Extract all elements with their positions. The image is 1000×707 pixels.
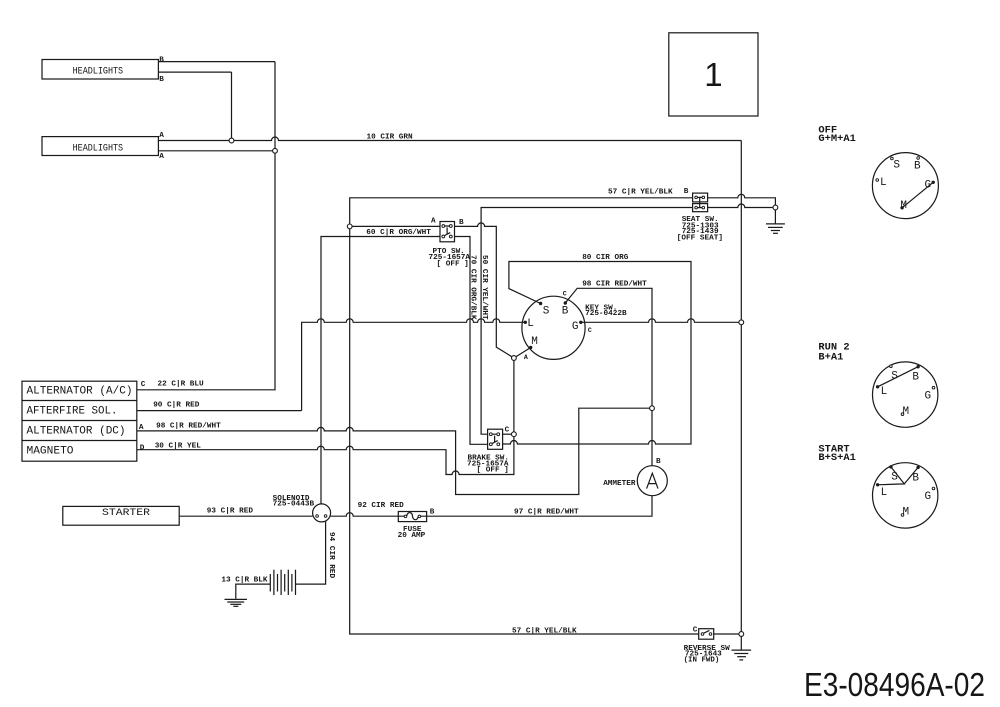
svg-text:90 C|R RED: 90 C|R RED — [153, 402, 200, 410]
svg-text:ALTERNATOR (DC): ALTERNATOR (DC) — [27, 426, 126, 438]
svg-text:G: G — [925, 491, 932, 503]
svg-text:HEADLIGHTS: HEADLIGHTS — [73, 66, 124, 77]
svg-text:L: L — [881, 487, 888, 499]
wire 98 CIR RED/WHT from key B up over and down to ammeter top — [565, 288, 652, 465]
svg-text:C: C — [588, 327, 592, 334]
svg-text:M: M — [900, 200, 907, 212]
wire 60 CIR ORG/WHT lower branch to solenoid top — [321, 237, 440, 505]
svg-text:725-0422B: 725-0422B — [585, 310, 627, 318]
svg-text:L: L — [527, 318, 534, 330]
svg-text:22 C|R BLU: 22 C|R BLU — [158, 381, 205, 389]
svg-text:B: B — [912, 372, 919, 384]
svg-text:C: C — [693, 627, 698, 635]
wire vertical from headlight1 B to node at 10 CIR GRN — [231, 72, 233, 140]
svg-text:A: A — [524, 354, 528, 361]
svg-text:M: M — [531, 336, 538, 348]
svg-text:G: G — [572, 321, 579, 333]
svg-text:B: B — [684, 188, 689, 196]
svg-text:AMMETER: AMMETER — [603, 480, 636, 488]
svg-text:B+A1: B+A1 — [818, 351, 843, 363]
wire 22 CIR BLU net: vertical x=275 down to alternator A/C row — [137, 62, 275, 390]
svg-text:M: M — [903, 406, 910, 418]
seat switch — [693, 193, 708, 212]
key position diagram START — [873, 463, 938, 528]
wire key row right: key G to right vertical junction with hops — [581, 319, 742, 322]
PTO switch — [440, 222, 455, 242]
svg-text:(IN FWD): (IN FWD) — [684, 656, 720, 664]
svg-text:A: A — [139, 424, 144, 432]
wire 13 CIR BLK battery to ground — [236, 584, 270, 599]
svg-text:20 AMP: 20 AMP — [398, 532, 426, 540]
ground at battery — [225, 599, 248, 606]
svg-text:98 CIR RED/WHT: 98 CIR RED/WHT — [582, 281, 647, 289]
wire 70 CIR ORG/BLK: PTO bottom-right down to brake bottom-left — [455, 237, 488, 445]
wire 90 CIR RED from afterfire solenoid — [137, 410, 302, 412]
svg-text:B+S+A1: B+S+A1 — [818, 452, 855, 464]
svg-text:M: M — [903, 507, 910, 519]
svg-text:[ OFF ]: [ OFF ] — [437, 261, 469, 269]
wire headlight1 pin B top to vertical — [158, 61, 275, 63]
node key M junction — [512, 356, 517, 361]
svg-text:B: B — [656, 458, 661, 466]
wire headlight1 pin B bottom — [158, 71, 231, 73]
svg-text:725-0443B: 725-0443B — [273, 501, 315, 509]
ammeter — [637, 466, 667, 496]
svg-text:13 C|R BLK: 13 C|R BLK — [221, 576, 268, 584]
svg-text:S: S — [891, 472, 898, 484]
svg-text:[ OFF ]: [ OFF ] — [477, 467, 509, 475]
wire 97 CIR RED/WHT fuse to ammeter bottom — [427, 496, 652, 517]
node key row right junction — [739, 320, 744, 325]
ground at seat switch — [766, 224, 785, 233]
wire reverse switch to junction — [714, 633, 742, 635]
node brake switch C junction — [512, 432, 517, 437]
node ammeter branch junction — [650, 406, 655, 411]
svg-text:D: D — [140, 445, 145, 453]
node headlights A junction — [229, 138, 234, 143]
wire right main vertical x=741 from 10 CIR GRN down to reverse switch ground — [740, 141, 742, 651]
svg-text:93 C|R RED: 93 C|R RED — [207, 507, 254, 515]
svg-text:L: L — [880, 177, 887, 189]
wire 98 CIR RED/WHT from alternator DC with hops, around to ammeter junction — [137, 408, 652, 494]
wire 60 CIR ORG/WHT from junction to PTO pin A — [350, 225, 440, 227]
key position diagram OFF — [872, 153, 938, 219]
alternator/magneto connector box — [22, 381, 137, 461]
wire seat switch bottom left, vertical x=481 down to brake switch top-left — [481, 208, 692, 435]
svg-text:10 CIR GRN: 10 CIR GRN — [367, 134, 414, 142]
brake switch — [488, 429, 512, 449]
starter box — [63, 506, 179, 525]
svg-text:B: B — [914, 161, 921, 173]
headlights box 1 — [42, 60, 158, 80]
svg-text:S: S — [891, 371, 898, 383]
wire PTO pin B out, hop x=481, corner down to key M junction — [455, 223, 514, 358]
wire 92 CIR RED solenoid to fuse with hop — [331, 513, 399, 517]
svg-text:S: S — [543, 305, 550, 317]
ground at reverse switch — [732, 650, 752, 660]
svg-text:60 C|R ORG/WHT: 60 C|R ORG/WHT — [366, 229, 431, 237]
node reverse switch ground junction — [739, 632, 744, 637]
svg-text:HEADLIGHTS: HEADLIGHTS — [73, 143, 124, 154]
svg-text:80 CIR ORG: 80 CIR ORG — [582, 254, 629, 262]
svg-text:50 CIR YEL/WHT: 50 CIR YEL/WHT — [480, 255, 488, 320]
svg-text:MAGNETO: MAGNETO — [27, 446, 74, 458]
svg-text:B: B — [459, 219, 464, 227]
starter solenoid — [313, 504, 331, 522]
wire 93 CIR RED starter to solenoid — [179, 515, 312, 517]
svg-text:E3-08496A-02: E3-08496A-02 — [804, 666, 985, 703]
svg-text:B: B — [159, 76, 164, 84]
svg-text:92 CIR RED: 92 CIR RED — [358, 502, 405, 510]
svg-text:C: C — [563, 291, 567, 298]
wire key row left: from 90 CIR RED corner to key L with hops — [302, 319, 526, 411]
svg-text:30 C|R YEL: 30 C|R YEL — [155, 442, 202, 450]
wire seat switch top right segment with hop, corner down to junction — [708, 194, 776, 207]
svg-text:[OFF SEAT]: [OFF SEAT] — [677, 234, 723, 242]
callout box 1 — [669, 33, 758, 116]
svg-text:G+M+A1: G+M+A1 — [818, 133, 855, 145]
fuse F1 20 AMP — [398, 512, 426, 522]
wire key M diagonal to junction — [514, 348, 531, 359]
svg-text:S: S — [893, 159, 900, 171]
svg-text:B: B — [912, 472, 919, 484]
svg-text:B: B — [430, 509, 435, 517]
svg-text:94 CIR RED: 94 CIR RED — [327, 532, 335, 579]
svg-text:B: B — [562, 305, 569, 317]
wire seat ground stem — [774, 208, 776, 224]
wire seat switch bottom right segment with hop to junction — [708, 204, 776, 207]
headlights box 2 — [42, 137, 158, 156]
svg-text:L: L — [881, 386, 888, 398]
svg-text:G: G — [925, 390, 932, 402]
wire 94 CIR RED solenoid bottom to battery — [296, 521, 326, 584]
svg-text:57 C|R YEL/BLK: 57 C|R YEL/BLK — [608, 189, 673, 197]
reverse switch — [699, 629, 714, 640]
svg-text:A: A — [159, 153, 164, 161]
svg-text:G: G — [925, 180, 932, 192]
svg-text:A: A — [159, 132, 164, 140]
svg-text:98 C|R RED/WHT: 98 C|R RED/WHT — [156, 423, 221, 431]
wire 10 CIR GRN: headlight2 A top across to right vertical, hop at x=275 — [158, 137, 741, 140]
battery B1 plates — [270, 570, 295, 595]
svg-text:B: B — [159, 56, 164, 64]
node seat switch ground junction — [773, 205, 778, 210]
key position diagram RUN 2 — [873, 362, 938, 427]
node headlights lower junction — [273, 148, 278, 153]
svg-text:C: C — [141, 381, 146, 389]
wire 30 CIR YEL from magneto, step down, hop, up to brake/key junctions — [137, 358, 514, 475]
wire brake bottom row with hops, up right vertical x=691, 80 CIR ORG to key S — [503, 262, 691, 445]
svg-text:STARTER: STARTER — [102, 507, 150, 518]
wire headlight2 pin A bottom — [158, 150, 275, 152]
svg-text:57 C|R YEL/BLK: 57 C|R YEL/BLK — [512, 628, 577, 636]
svg-text:AFTERFIRE SOL.: AFTERFIRE SOL. — [27, 406, 118, 418]
wire 57 CIR YEL/BLK: seat switch top left, long left vertical, bottom run to reverse switch — [350, 198, 699, 634]
svg-text:70 CIR ORG/BLK: 70 CIR ORG/BLK — [468, 255, 476, 320]
svg-text:A: A — [431, 218, 436, 226]
svg-text:97 C|R RED/WHT: 97 C|R RED/WHT — [514, 509, 579, 517]
svg-text:C: C — [505, 426, 510, 434]
svg-text:1: 1 — [704, 56, 722, 93]
key switch U1 — [522, 291, 592, 362]
node 60 CIR ORG/WHT junction — [347, 224, 352, 229]
svg-text:ALTERNATOR (A/C): ALTERNATOR (A/C) — [27, 386, 133, 398]
